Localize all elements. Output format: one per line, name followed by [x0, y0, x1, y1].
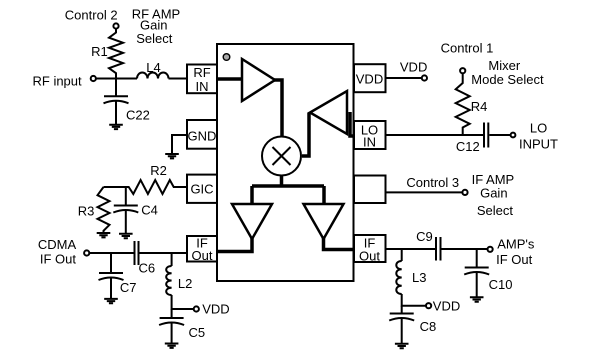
svg-text:C7: C7 [120, 280, 137, 295]
svg-text:R1: R1 [91, 44, 108, 59]
svg-text:Select: Select [477, 203, 514, 218]
svg-text:VDD: VDD [433, 299, 460, 314]
svg-text:L4: L4 [146, 60, 160, 75]
svg-text:C5: C5 [189, 325, 206, 340]
svg-text:Control 2: Control 2 [65, 8, 118, 23]
svg-text:Mixer: Mixer [488, 58, 520, 73]
svg-text:VDD: VDD [400, 60, 427, 75]
svg-text:Select: Select [136, 31, 173, 46]
svg-text:Control 1: Control 1 [441, 40, 494, 55]
svg-text:IF Out: IF Out [40, 252, 77, 267]
svg-text:IN: IN [196, 79, 209, 94]
svg-text:R2: R2 [150, 163, 167, 178]
svg-text:LO: LO [530, 121, 547, 136]
svg-text:VDD: VDD [202, 301, 229, 316]
svg-text:Mode Select: Mode Select [471, 72, 544, 87]
svg-text:Control 3: Control 3 [406, 175, 459, 190]
svg-text:C8: C8 [420, 319, 437, 334]
svg-text:IF Out: IF Out [496, 252, 533, 267]
svg-text:IN: IN [363, 134, 376, 149]
svg-text:L3: L3 [412, 270, 426, 285]
svg-text:L2: L2 [178, 276, 192, 291]
svg-text:Gain: Gain [480, 186, 507, 201]
svg-text:C22: C22 [126, 107, 150, 122]
svg-text:RF input: RF input [33, 73, 83, 88]
svg-text:AMP's: AMP's [497, 236, 535, 251]
svg-text:Out: Out [192, 248, 213, 263]
svg-text:C4: C4 [141, 203, 158, 218]
svg-text:R4: R4 [471, 99, 488, 114]
svg-text:R3: R3 [78, 204, 95, 219]
svg-text:INPUT: INPUT [519, 136, 558, 151]
svg-text:GIC: GIC [190, 182, 213, 197]
svg-text:GND: GND [188, 128, 217, 143]
svg-text:VDD: VDD [356, 72, 383, 87]
svg-text:C9: C9 [416, 229, 433, 244]
svg-text:C6: C6 [139, 261, 156, 276]
svg-text:C10: C10 [489, 277, 513, 292]
svg-text:C12: C12 [456, 139, 480, 154]
svg-text:Out: Out [359, 249, 380, 264]
svg-text:RF: RF [193, 65, 210, 80]
svg-text:CDMA: CDMA [38, 237, 77, 252]
